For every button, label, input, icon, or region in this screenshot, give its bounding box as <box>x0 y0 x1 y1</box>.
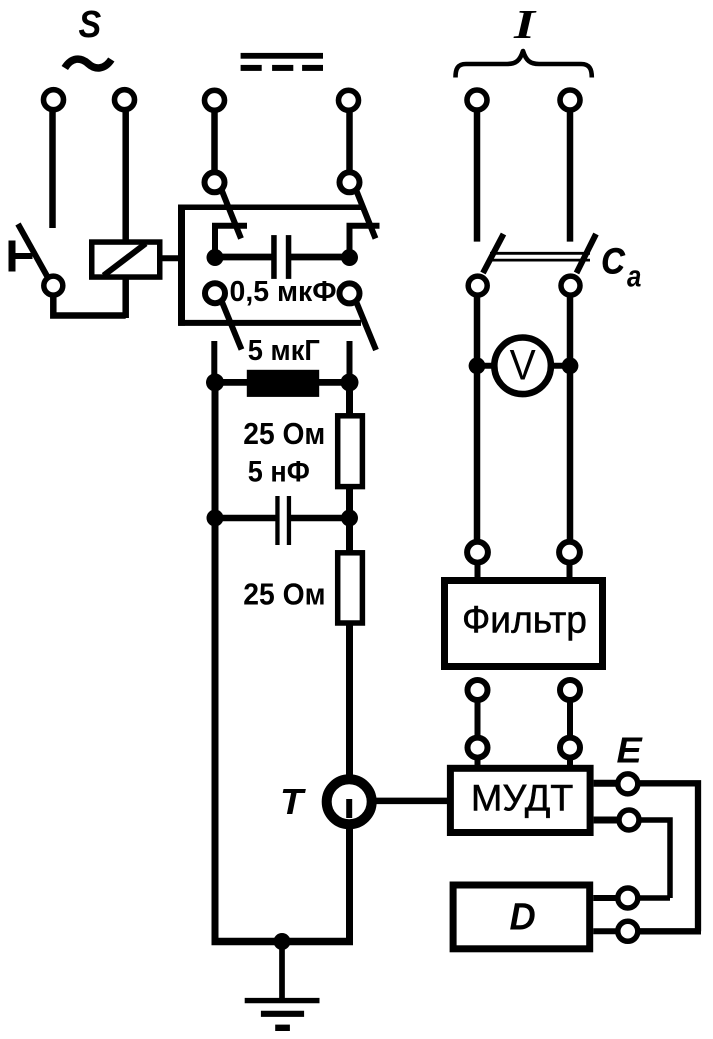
svg-text:5 мкГ: 5 мкГ <box>248 335 320 367</box>
switch blade lower-right <box>357 303 377 351</box>
value 25 Ohm upper <box>243 417 325 451</box>
left bus wire <box>212 382 219 941</box>
node right of inductor <box>341 373 359 391</box>
D box <box>453 885 590 949</box>
wire right between terminals <box>567 702 573 736</box>
resistor R1 25 Ohm <box>338 416 363 487</box>
svg-text:V: V <box>510 342 536 390</box>
svg-text:C: C <box>601 241 625 282</box>
terminal 1 <box>44 90 64 110</box>
ground junction node <box>274 933 291 950</box>
stub left into filter <box>475 562 481 578</box>
svg-text:25 Ом: 25 Ом <box>243 417 325 451</box>
label Ca <box>601 241 641 294</box>
MUDT pin 1 stub <box>594 780 617 787</box>
wire transformer to bottom <box>346 827 353 942</box>
lower contact stub left <box>211 341 217 382</box>
current transformer T <box>327 779 372 824</box>
terminal 5 <box>467 90 487 110</box>
wire MUDT pin1 to D pin4 <box>640 783 698 931</box>
label S <box>79 4 102 46</box>
wire inductor to R1 <box>346 382 353 416</box>
stub left into MUDT <box>475 758 481 768</box>
wire Ca to filter right <box>567 295 574 540</box>
node left of inductor <box>206 373 224 391</box>
filter box <box>445 581 603 667</box>
MUDT pin 1 circle <box>618 774 638 794</box>
switch Ca blade left <box>483 234 504 273</box>
node right of 5nF <box>341 510 358 527</box>
switch Ca pivot right <box>561 276 580 295</box>
wire from terminal 3 <box>211 105 218 172</box>
D pin 3 stub <box>593 895 616 901</box>
wire pushbutton to relay coil <box>53 295 125 316</box>
switch contact circle upper-left <box>205 172 225 192</box>
label T <box>280 781 306 822</box>
voltmeter V wires <box>477 363 570 369</box>
MUDT pin 2 circle <box>619 810 639 830</box>
MUDT box <box>450 768 590 832</box>
capacitor C 0,5uF plates <box>271 235 291 279</box>
resistor R2 25 Ohm <box>338 553 363 623</box>
wire D pin3 to vertical <box>639 895 670 901</box>
DC symbol solid bar <box>241 53 323 59</box>
wire relay to box <box>162 255 180 261</box>
value 5 nF <box>248 456 310 489</box>
filter output terminal right <box>560 680 580 700</box>
AC tilde symbol <box>65 59 112 68</box>
wire MUDT pin2 to D pin3 <box>641 820 670 898</box>
svg-text:E: E <box>617 730 643 771</box>
bottom wire <box>212 938 354 946</box>
node right of capacitor <box>341 249 358 266</box>
node left of 5nF <box>207 510 224 527</box>
wire from terminal 4 <box>346 105 353 172</box>
value 0,5 mkF <box>230 276 337 308</box>
voltmeter node right <box>562 357 579 374</box>
MUDT pin 2 stub <box>594 817 617 824</box>
svg-text:a: a <box>627 259 641 294</box>
brace under I <box>456 51 592 78</box>
terminal 4 <box>339 90 359 110</box>
svg-text:Фильтр: Фильтр <box>462 600 587 642</box>
switch Ca blade right <box>577 234 597 273</box>
switch blade upper-right <box>357 191 376 239</box>
wire D pin4 to vertical <box>639 928 701 934</box>
value 25 Ohm lower <box>243 577 325 611</box>
switch blade lower-left <box>222 302 242 350</box>
switch contact circle upper-right <box>340 172 360 192</box>
svg-text:МУДТ: МУДТ <box>471 778 574 819</box>
switch blade upper-left <box>222 191 241 239</box>
terminal 2 <box>115 90 135 110</box>
capacitor 5 nF plates <box>275 496 291 545</box>
ground <box>245 942 320 1028</box>
node left of capacitor <box>207 249 224 266</box>
switch Ca mechanical link <box>490 253 590 260</box>
switch contact circle lower-right <box>340 283 360 303</box>
svg-text:0,5 мкФ: 0,5 мкФ <box>230 276 337 308</box>
MUDT input terminal left <box>468 738 488 758</box>
wire R1 to node <box>346 487 353 553</box>
lower contact stub right <box>347 341 353 382</box>
filter input terminal left <box>467 542 488 563</box>
pushbutton pivot circle <box>44 276 63 295</box>
D pin 3 circle <box>618 888 638 908</box>
value 5 mkG <box>248 335 320 367</box>
fixed contact hook left <box>215 226 247 258</box>
label I <box>513 1 538 47</box>
svg-text:T: T <box>280 781 306 822</box>
switch contact circle lower-left <box>205 283 225 303</box>
fixed contact hook right <box>350 226 380 258</box>
wire from terminal 6 <box>567 105 574 242</box>
svg-text:25 Ом: 25 Ом <box>243 577 325 611</box>
inductor L wires <box>215 379 350 386</box>
wire from terminal 5 <box>474 105 481 242</box>
switch Ca pivot left <box>468 276 487 295</box>
pushbutton blade <box>18 224 47 276</box>
wire from terminal 1 <box>49 105 56 228</box>
relay K <box>92 242 160 277</box>
voltmeter node left <box>469 357 486 374</box>
DC symbol dashed bar <box>241 65 323 71</box>
wire from terminal 2 to relay <box>122 105 129 318</box>
label E <box>617 730 643 771</box>
switch box bracket <box>178 205 364 326</box>
terminal 6 <box>560 90 580 110</box>
MUDT input terminal right <box>560 738 580 758</box>
svg-text:5 нФ: 5 нФ <box>248 456 310 489</box>
inductor L 5 mkG <box>247 370 319 397</box>
svg-text:S: S <box>79 4 102 46</box>
wire Ca to filter left <box>474 295 481 540</box>
capacitor C 0,5uF wires <box>215 254 350 261</box>
capacitor 5 nF wires <box>215 515 350 522</box>
stub right into MUDT <box>567 758 573 768</box>
wire R2 to transformer <box>346 623 353 776</box>
D pin 4 circle <box>618 921 638 941</box>
svg-text:D: D <box>510 896 536 938</box>
filter output terminal left <box>468 680 488 700</box>
wire left between terminals <box>475 702 481 736</box>
stub right into filter <box>567 562 573 578</box>
voltmeter V <box>494 338 551 395</box>
wire T to MUDT <box>375 798 447 805</box>
svg-text:I: I <box>513 1 538 47</box>
D pin 4 stub <box>593 928 616 934</box>
filter input terminal right <box>559 542 580 563</box>
terminal 3 <box>205 90 225 110</box>
pushbutton fixed contact <box>9 241 33 272</box>
